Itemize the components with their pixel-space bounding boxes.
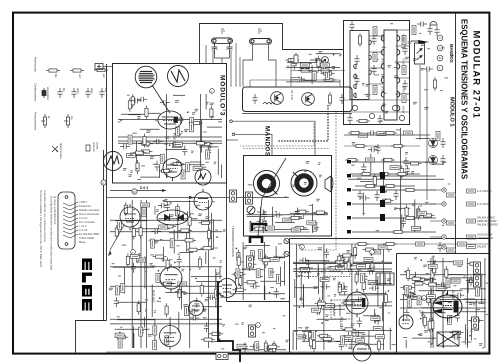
value text (169, 259, 173, 261)
resistor BRR144 (309, 335, 312, 349)
junction (469, 335, 471, 337)
resistor BRR137 (355, 271, 358, 285)
value label MDV261 (294, 215, 303, 219)
resistor OSR55 (132, 226, 135, 240)
value label M3V30 (172, 144, 181, 148)
connector plug J1 (58, 192, 78, 249)
value text (150, 254, 154, 256)
junction (133, 209, 135, 211)
wire (362, 193, 364, 216)
wire (117, 319, 155, 321)
tuner transistor Q2 AF139 (302, 93, 315, 106)
value text (367, 294, 370, 296)
junction (299, 306, 301, 308)
junction (142, 151, 144, 153)
value text (325, 320, 329, 322)
resistor BRR141 (347, 258, 350, 272)
value text (249, 304, 252, 306)
capacitor M3C17 (160, 100, 170, 105)
value text (394, 231, 396, 233)
svg-text:Masa: Masa (79, 240, 86, 244)
wire (401, 214, 403, 232)
wire (339, 294, 382, 296)
value text (208, 147, 211, 149)
wire (293, 263, 392, 265)
wire (339, 67, 341, 69)
parts row 3 below module1 (345, 158, 359, 161)
bottom centre terminal (230, 190, 237, 202)
value text (394, 232, 396, 234)
wire (467, 279, 469, 293)
value text (137, 262, 139, 264)
value label OSV94 (118, 339, 122, 348)
wire (344, 335, 376, 337)
wire (275, 246, 277, 259)
value text (165, 173, 168, 175)
diode circle D10 (429, 139, 438, 148)
resistor BRR142 (315, 302, 329, 305)
value label M3V34 (176, 127, 180, 136)
wire (420, 312, 445, 314)
value text (381, 75, 384, 77)
dial cord diagonal (258, 158, 286, 236)
value text (365, 343, 368, 345)
wire (132, 155, 165, 157)
tube V5 waveform (195, 169, 211, 185)
wire (377, 276, 379, 307)
resistor FRR192 (402, 293, 416, 296)
wire (302, 340, 341, 342)
junction (371, 254, 373, 256)
value label BCV113 (277, 274, 281, 283)
screw terminal 1 (284, 238, 289, 243)
value text (138, 255, 140, 257)
capacitor OSC60 (114, 297, 119, 307)
value text (464, 277, 466, 279)
capacitor M3C16 (137, 97, 147, 102)
resistor MDR253 (295, 210, 309, 213)
junction (435, 283, 437, 285)
resistor TUR240 (317, 56, 320, 70)
value text (150, 262, 153, 264)
wire (430, 258, 432, 348)
resistor FRR188 (431, 318, 434, 332)
value text (327, 268, 331, 270)
value text (395, 61, 399, 63)
can C21 label ticks (258, 29, 262, 33)
svg-text:vert: vert (78, 74, 82, 79)
capacitor M3C20 (182, 146, 187, 156)
test point circle e (131, 250, 136, 255)
value text (242, 268, 246, 270)
value text (358, 269, 361, 271)
value text (450, 296, 453, 298)
value label FRV215 (407, 298, 411, 307)
can C20 label ticks (221, 29, 225, 33)
value text (428, 341, 431, 343)
wire drop to tuner (290, 59, 292, 86)
value text (150, 157, 154, 159)
capacitor M3C19 (154, 161, 159, 171)
wire (230, 293, 285, 295)
wire (148, 112, 161, 114)
resistor M3R4 (159, 169, 173, 172)
junction (414, 276, 416, 278)
wire cylinder drop 2 (212, 50, 214, 64)
capacitor BCC106 (270, 256, 280, 261)
value label FRV210 (451, 279, 460, 283)
value text (343, 258, 346, 260)
svg-text:Proteccion: Proteccion (79, 204, 92, 208)
capacitor FRC208 (438, 282, 448, 287)
resistor MDR254 (293, 226, 307, 229)
value label MDV259 (283, 218, 292, 222)
value label FRV212 (447, 315, 451, 324)
value text (419, 205, 422, 207)
value text (382, 260, 384, 262)
junction (323, 340, 325, 342)
resistor OSR40 (178, 286, 181, 300)
tuner resistor (328, 92, 331, 106)
capacitor OSC66 (164, 337, 169, 347)
value text (339, 53, 342, 55)
resistor M3R7 (145, 105, 148, 119)
dashed harness 2 (243, 148, 330, 150)
value text (416, 209, 419, 211)
value text (405, 56, 409, 58)
value text (374, 59, 378, 61)
value text (333, 279, 335, 281)
test point circle d (422, 296, 427, 301)
value text (296, 274, 299, 276)
wire (318, 301, 320, 315)
junction (333, 54, 335, 56)
value label M3V33 (190, 123, 194, 132)
wire (344, 299, 364, 301)
value text (411, 172, 413, 174)
resistor FRR189 (467, 262, 481, 265)
value text (425, 201, 428, 203)
wire (172, 164, 204, 166)
parts row 2 below module1 (353, 144, 367, 147)
value text (214, 163, 216, 165)
wire (466, 301, 487, 303)
value text (130, 171, 132, 173)
value text (452, 335, 455, 337)
value text (383, 92, 387, 94)
svg-text:C293A: C293A (153, 206, 157, 215)
wire (465, 324, 467, 340)
wire (322, 280, 324, 300)
value text (273, 328, 275, 330)
value text (387, 243, 390, 245)
value text (249, 306, 252, 308)
junction (174, 262, 176, 264)
wire (370, 154, 372, 172)
svg-text:fija: fija (54, 74, 58, 78)
value label TUV247 (312, 72, 316, 81)
value text (183, 305, 187, 307)
value text (334, 295, 336, 297)
value text (212, 201, 215, 203)
wire (166, 176, 168, 178)
wire from can C21 b (269, 44, 277, 87)
value text (195, 108, 199, 110)
value text (120, 326, 122, 328)
value text (220, 260, 222, 262)
wire (245, 245, 270, 247)
wire (136, 228, 170, 230)
capacitor M3C21 (131, 98, 141, 103)
resistor BMR224 (380, 199, 394, 202)
value text (357, 177, 361, 179)
value text (445, 77, 449, 79)
junction (244, 344, 246, 346)
junction (158, 270, 160, 272)
value text (379, 307, 382, 309)
wire (235, 273, 237, 285)
capacitor BCC103 (274, 288, 279, 298)
tube V9 (346, 289, 368, 318)
wire (272, 229, 308, 231)
value text (302, 302, 304, 304)
value text (181, 268, 184, 270)
value text (352, 142, 355, 144)
value text (304, 170, 307, 172)
value label BRV175 (361, 274, 365, 283)
logo letter E (82, 259, 92, 271)
value label BMV238 (390, 166, 399, 170)
wire (421, 307, 447, 309)
resistor OSR48 (126, 253, 129, 267)
wire (387, 248, 392, 250)
core staple 1 (252, 224, 266, 231)
wire (118, 119, 222, 121)
wire (300, 273, 302, 302)
wire can C20 down (221, 58, 223, 64)
value label MDV258 (313, 222, 317, 231)
resistor BRR134 (342, 328, 356, 331)
mandos caps (257, 209, 267, 214)
value label BRV179 (357, 265, 366, 269)
value text (305, 328, 308, 330)
value text (338, 283, 340, 285)
value label BRV165 (373, 327, 382, 331)
value text (304, 183, 307, 185)
svg-text:C.A.vid: C.A.vid (79, 228, 88, 232)
value text (423, 297, 425, 299)
resistor BRR127 (320, 337, 334, 340)
junction (316, 60, 318, 62)
capacitor OSC71 (184, 211, 194, 216)
bottom centre module top edge (226, 238, 228, 302)
value text (192, 112, 195, 114)
capacitor TUC244 (292, 60, 297, 70)
junction (159, 297, 161, 299)
capacitor BCC105 (247, 261, 252, 271)
wire (316, 53, 340, 55)
wire (183, 292, 221, 294)
wire (400, 307, 486, 309)
wire (430, 288, 432, 324)
oscillogram legend list (right column) (467, 189, 499, 249)
value label BRV171 (368, 280, 377, 284)
wire (422, 311, 424, 323)
tube V10 (433, 291, 462, 322)
junction (211, 116, 213, 118)
value text (154, 231, 156, 233)
wire (400, 274, 486, 276)
value text (442, 300, 446, 302)
wire (394, 207, 410, 209)
junction (399, 209, 401, 211)
resistor FRR190 (433, 262, 436, 276)
capacitor BRC154 (299, 258, 309, 263)
value text (223, 109, 227, 111)
resistor TUR242 (321, 72, 335, 75)
wire (460, 288, 486, 290)
value label OSV81 (139, 327, 143, 336)
junction (266, 348, 268, 350)
value text (109, 289, 113, 291)
value text (382, 46, 386, 48)
wire (293, 263, 392, 265)
capacitor OSC70 (188, 309, 198, 314)
resistor BRR122 (341, 255, 344, 269)
value text (345, 343, 347, 345)
wire (280, 267, 282, 287)
value text (351, 323, 355, 325)
junction (179, 134, 181, 136)
legend resistor 3 (94, 68, 108, 71)
wire (383, 244, 385, 350)
value text (215, 247, 218, 249)
capacitor M3C22 (206, 146, 211, 156)
junction (443, 286, 445, 288)
capacitor BRC155 (338, 284, 348, 289)
svg-text:Potenciometros: Potenciometros (34, 112, 38, 131)
wire (273, 346, 275, 352)
value text (284, 196, 287, 198)
legend socket box (86, 145, 90, 151)
wire from can C20 (215, 54, 230, 58)
value text (316, 198, 320, 200)
capacitor BMC233 (405, 165, 410, 175)
value text (309, 53, 312, 55)
value text (375, 74, 380, 76)
value text (366, 83, 369, 85)
wire (162, 247, 164, 262)
value text (202, 166, 206, 168)
svg-text:P.CF 200: P.CF 200 (172, 133, 176, 146)
wire band lower (106, 197, 289, 199)
value text (365, 345, 367, 347)
value text (358, 271, 361, 273)
svg-text:fijo: fijo (62, 88, 66, 92)
capacitor OSC67 (139, 327, 144, 337)
junction (236, 277, 238, 279)
value text (482, 347, 484, 349)
IF socket strip rect (384, 30, 397, 120)
value text (364, 93, 368, 95)
value text (432, 255, 435, 257)
value text (155, 240, 159, 242)
svg-text:Condensadores: Condensadores (34, 83, 38, 102)
capacitor BMC230 (368, 147, 378, 152)
tuner coil (263, 103, 275, 105)
value text (153, 163, 157, 165)
wire (199, 146, 218, 148)
junction (452, 295, 454, 297)
value text (457, 265, 462, 267)
dashed harness down to bottom module (300, 112, 336, 250)
value text (170, 203, 172, 205)
tuner inner parts (252, 94, 257, 104)
wire row b (352, 175, 436, 177)
value text (223, 229, 226, 231)
value text (341, 270, 344, 272)
resistor BRR130 (341, 301, 355, 304)
value text (146, 131, 150, 133)
value text (388, 250, 390, 252)
svg-text:B: B (439, 56, 441, 60)
wire (442, 258, 444, 348)
value text (205, 216, 209, 218)
junction (169, 144, 171, 146)
value text (248, 184, 253, 186)
capacitor BCC107 (247, 262, 257, 267)
terminal strip TB3 (249, 325, 256, 337)
svg-text:Err.SALIDA VERT: Err.SALIDA VERT (79, 232, 100, 236)
value text (401, 47, 405, 49)
capacitor BRC157 (320, 284, 330, 289)
resistor FRR196 (423, 315, 426, 329)
wire: border step to bottom (76, 321, 107, 353)
value text (413, 103, 416, 105)
resistor BMR226 (417, 206, 420, 220)
value label BRV173 (312, 308, 321, 312)
boxed label 2 (447, 221, 456, 225)
resistor BCR100 (259, 259, 273, 262)
value text (419, 333, 423, 335)
value text (319, 52, 322, 54)
wire (201, 120, 203, 153)
svg-text:TODA GAMA: TODA GAMA (79, 236, 95, 240)
value text (425, 278, 429, 280)
svg-text:SALIDA CUADRO: SALIDA CUADRO (477, 223, 498, 227)
wire (270, 350, 272, 353)
value text (442, 293, 444, 295)
capacitor OSC63 (165, 201, 170, 211)
svg-text:zocalo: zocalo (96, 142, 100, 150)
wire (149, 239, 183, 241)
resistor BRR145 (338, 281, 341, 295)
wire (438, 296, 457, 298)
value label FRV220 (476, 287, 480, 296)
resistor FRR187 (431, 268, 434, 282)
capacitor OSC64 (194, 298, 199, 308)
value text (413, 101, 417, 103)
value text (338, 281, 340, 283)
resistor BMR228 (405, 205, 408, 219)
junction (185, 131, 187, 133)
value text (362, 307, 366, 309)
value text (203, 317, 207, 319)
wire (268, 351, 270, 353)
value text (154, 232, 156, 234)
value text (210, 104, 214, 106)
value text (123, 168, 127, 170)
